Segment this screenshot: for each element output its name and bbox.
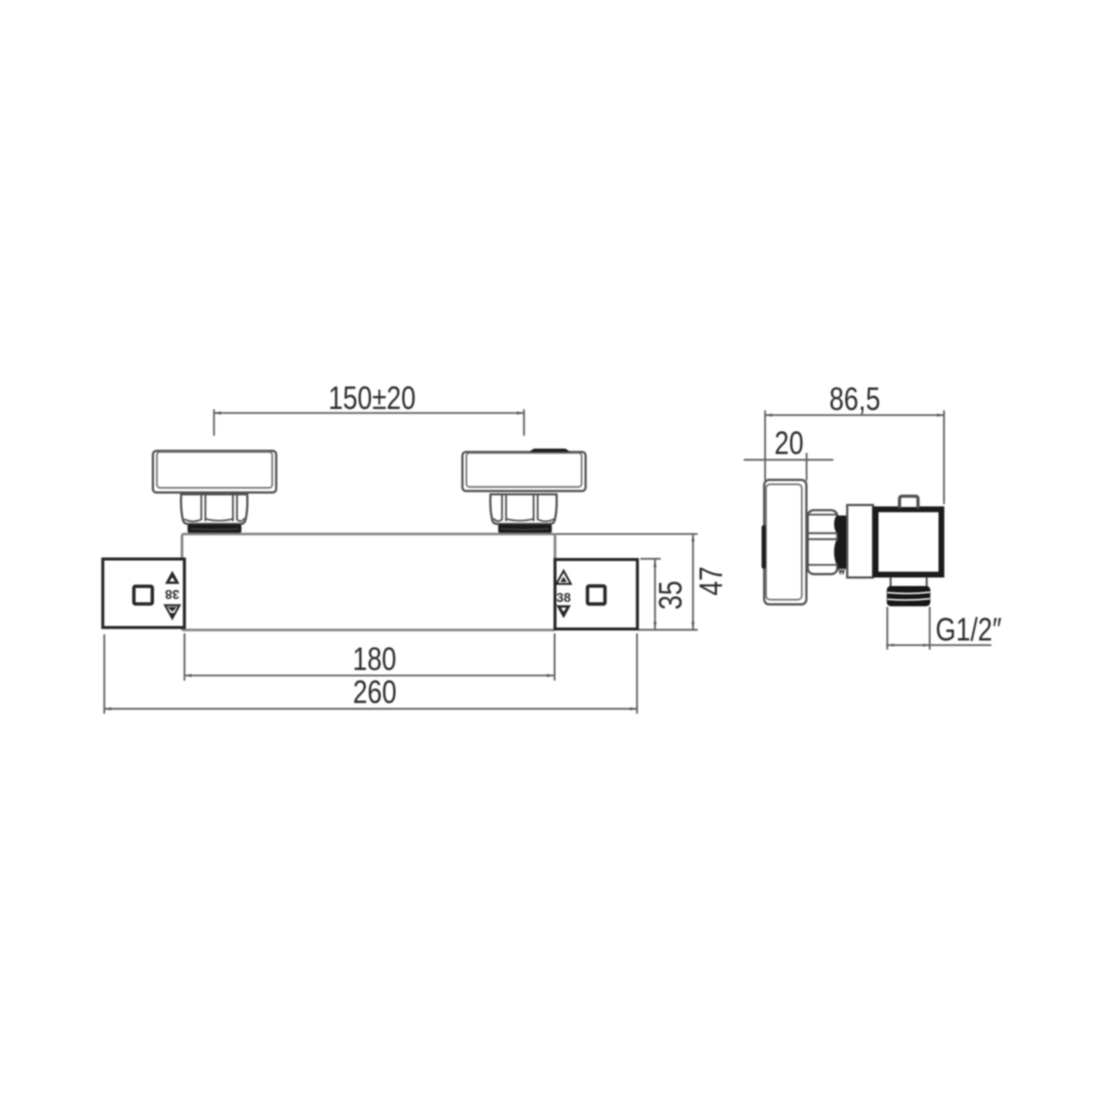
dimension line 20: [744, 459, 832, 461]
left seal ring (black): [188, 524, 242, 533]
seal serration teeth: [839, 569, 845, 574]
svg-text:260: 260: [353, 676, 397, 711]
extension tick right of 150±20: [523, 410, 525, 435]
extension line 86,5 right: [943, 411, 945, 504]
right end block: [555, 560, 637, 630]
svg-text:38: 38: [556, 590, 570, 605]
side hex nut face lines: [808, 515, 837, 565]
extension tick left of 150±20: [213, 410, 215, 435]
side hex nut outer: [808, 510, 838, 574]
dimension line 35: [654, 560, 656, 629]
extension line 47 top: [556, 533, 697, 535]
extension line 20 right: [806, 454, 808, 481]
right hex nut facet bottom curve: [494, 519, 554, 522]
right block up triangle: [556, 571, 570, 584]
dimension line 180: [185, 675, 555, 677]
svg-text:38: 38: [165, 587, 179, 602]
right hex nut: [490, 494, 556, 524]
left handle knob outer: [153, 451, 276, 493]
side hex nut facet arcs: [835, 516, 837, 565]
dimension line G1/2: [887, 644, 991, 646]
right handle knob inner bevel: [466, 453, 581, 487]
left hex nut facet lines: [201, 495, 237, 521]
valve body (thick border): [876, 509, 942, 574]
connector sleeve: [847, 505, 873, 578]
right handle top black button: [529, 449, 570, 452]
extension line 260 left: [103, 635, 105, 713]
left end block: [103, 559, 185, 628]
right block square mark: [588, 586, 606, 604]
svg-text:86,5: 86,5: [829, 383, 880, 418]
svg-text:G1/2″: G1/2″: [936, 613, 1002, 648]
right block down triangle: [556, 605, 570, 618]
arrowheads 150±20: [214, 411, 524, 414]
wall plate inner bevel: [766, 484, 802, 599]
main bar body: [182, 534, 555, 630]
outlet neck lines: [891, 578, 927, 586]
threaded outlet (black): [887, 586, 931, 606]
extension line G1/2 right: [929, 608, 931, 650]
wall plate (side view) outer: [764, 480, 806, 605]
extension line G1/2 left: [886, 608, 888, 650]
right hex nut facet lines: [502, 495, 538, 521]
side seal ring (black): [838, 516, 847, 569]
right handle knob outer: [462, 452, 585, 491]
dimension line 260: [104, 708, 637, 710]
dimension line 47: [692, 535, 694, 630]
svg-text:150±20: 150±20: [328, 382, 415, 417]
left block square mark: [134, 586, 152, 604]
extension line 35 top: [641, 558, 660, 560]
extension line 180 right: [554, 634, 556, 680]
body top button: [900, 496, 919, 507]
extension line 180 left: [184, 634, 186, 680]
wall plate black tab: [762, 525, 766, 568]
dimension line 86,5: [765, 414, 944, 416]
thread ridges (white): [888, 592, 929, 600]
svg-text:20: 20: [774, 427, 803, 462]
left block up triangle: [165, 571, 179, 584]
extension line 35/47 bottom: [639, 629, 697, 631]
svg-text:47: 47: [695, 566, 730, 595]
left hex nut: [181, 494, 247, 524]
svg-text:35: 35: [654, 581, 689, 610]
svg-text:180: 180: [353, 643, 397, 678]
left hex nut facet bottom curve: [185, 519, 244, 522]
extension line 86,5 left: [764, 411, 766, 480]
dimension line 150±20: [214, 412, 524, 414]
extension line 260 right: [636, 634, 638, 713]
left handle knob inner bevel: [157, 452, 272, 488]
right seal ring (black): [498, 524, 552, 533]
left block down triangle: [165, 605, 179, 618]
